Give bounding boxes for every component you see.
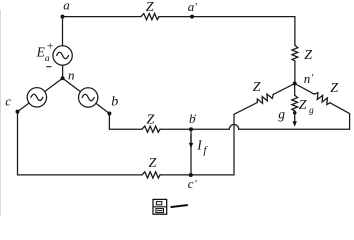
svg-text:': ' xyxy=(311,72,314,84)
svg-text:a: a xyxy=(63,0,70,13)
svg-text:Z: Z xyxy=(146,0,154,15)
wire Ea to n xyxy=(62,65,64,78)
svg-text:+: + xyxy=(47,39,54,53)
wire n' to right diagonal resistor xyxy=(295,84,314,95)
svg-text:g: g xyxy=(309,106,314,116)
wire resistor to corner via a' xyxy=(159,16,295,18)
fault current arrow If xyxy=(189,135,193,149)
wire n to source Eb xyxy=(63,78,81,91)
node c' xyxy=(189,173,193,177)
wire resistor to n' xyxy=(294,61,296,84)
node ground dot xyxy=(293,111,297,115)
resistor Z (a' to n') xyxy=(292,45,298,61)
label Zg xyxy=(299,98,314,116)
label b' xyxy=(189,111,196,126)
node b' xyxy=(189,127,193,131)
wire b down and right to resistor xyxy=(109,114,142,130)
svg-text:n: n xyxy=(304,71,311,86)
node n xyxy=(61,76,65,80)
label minus xyxy=(47,66,51,68)
wire hop over vertical xyxy=(229,124,238,129)
wire a down to source Ea xyxy=(62,17,64,46)
wire n to source Ec xyxy=(45,78,63,91)
svg-text:Z: Z xyxy=(253,80,261,95)
source Ea xyxy=(53,46,72,65)
label c' xyxy=(188,176,198,191)
caption 圖一 xyxy=(153,199,187,214)
svg-text:Z: Z xyxy=(149,156,157,171)
wire n' to left diagonal resistor xyxy=(273,84,294,95)
node a' xyxy=(190,15,194,19)
svg-text:f: f xyxy=(203,145,208,157)
wire source Ec to node c xyxy=(18,103,30,112)
svg-text:c: c xyxy=(5,94,11,109)
label a' xyxy=(188,0,198,14)
wire top right corner down xyxy=(294,17,296,46)
svg-text:Z: Z xyxy=(299,98,307,113)
node b xyxy=(107,112,111,116)
left edge scan artifact xyxy=(0,10,2,215)
svg-text:Z: Z xyxy=(147,113,155,128)
resistor Z (line c-c') xyxy=(142,172,160,178)
wire left diagonal corner down to c' line xyxy=(233,114,235,175)
resistor Z (line b-b') xyxy=(142,126,160,132)
svg-text:c: c xyxy=(188,176,194,191)
resistor Z (line a-a') xyxy=(141,14,159,20)
svg-text:': ' xyxy=(193,113,196,125)
svg-text:b: b xyxy=(111,95,118,110)
svg-text:n: n xyxy=(68,67,75,82)
wire b' to hop xyxy=(191,128,229,130)
svg-text:g: g xyxy=(278,107,285,122)
svg-text:I: I xyxy=(196,138,203,153)
resistor Z (right diagonal) xyxy=(313,91,332,105)
label n' xyxy=(304,71,314,86)
fault wire b' to c' xyxy=(190,129,192,175)
resistor Zg xyxy=(292,95,298,111)
svg-text:': ' xyxy=(194,1,197,13)
svg-text:Z: Z xyxy=(304,48,312,63)
svg-text:Z: Z xyxy=(330,81,338,96)
node c xyxy=(16,110,20,114)
svg-text:': ' xyxy=(194,178,197,190)
wire resistor to b' xyxy=(160,128,191,130)
wire right corner up xyxy=(349,114,351,130)
wire resistor to c' and junction xyxy=(160,174,234,176)
wire a to top resistor xyxy=(63,16,142,18)
wire Zg to ground node xyxy=(294,111,296,113)
node a xyxy=(61,15,65,19)
wire left diagonal resistor to corner xyxy=(234,103,257,115)
label If xyxy=(196,138,208,157)
wire source Eb to node b xyxy=(96,103,110,113)
wire c down and along bottom to resistor xyxy=(18,112,143,175)
wire hop to right corner xyxy=(239,128,350,130)
wire n' to Zg xyxy=(294,84,296,96)
wire right diagonal lower part xyxy=(330,103,350,114)
ground current arrow xyxy=(293,113,297,127)
source Ec xyxy=(27,88,46,107)
node n' xyxy=(293,82,297,86)
resistor Z (left diagonal) xyxy=(256,92,275,106)
source Eb xyxy=(79,88,98,107)
